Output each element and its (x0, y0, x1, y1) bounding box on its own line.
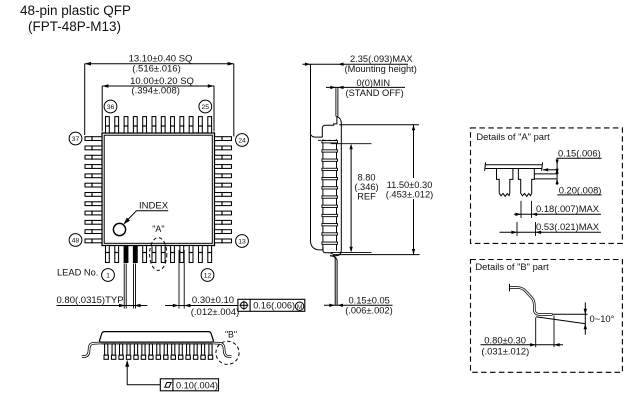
dimension 13.10±0.40 SQ (85, 63, 234, 65)
svg-text:M: M (297, 304, 303, 311)
svg-text:2.35(.093)MAX: 2.35(.093)MAX (350, 54, 413, 64)
svg-text:37: 37 (72, 136, 80, 143)
side view lead 7 edge (322, 196, 338, 198)
svg-text:0.80(.0315)TYP: 0.80(.0315)TYP (57, 295, 124, 306)
pin number callout 37 (69, 132, 82, 145)
svg-text:0.18(.007)MAX: 0.18(.007)MAX (536, 203, 600, 214)
svg-text:24: 24 (238, 137, 246, 144)
bottom view: package body profile (100, 332, 214, 343)
side view lead 12 edge (322, 242, 338, 244)
pin number callout 25 (199, 100, 212, 113)
svg-text:0.15(.006): 0.15(.006) (558, 147, 601, 158)
bottom view: right corner gull-wing lead "B" (213, 343, 232, 356)
Details of "A" part box (471, 128, 623, 243)
svg-text:0.20(.008): 0.20(.008) (559, 184, 602, 195)
left pin row (pins 37..48) (85, 137, 102, 141)
side view lead 10 edge (322, 224, 338, 226)
pin number callout 24 (236, 134, 249, 147)
svg-text:Details of "B" part: Details of "B" part (475, 261, 549, 272)
B: dimension 0.80±0.30 (535, 318, 537, 348)
A: dimension 0.20(.008) (534, 173, 557, 175)
right pin row (pins 24..13) (215, 137, 232, 141)
svg-text:LEAD No.: LEAD No. (57, 268, 98, 278)
position symbol (241, 302, 248, 309)
svg-text:36: 36 (107, 104, 115, 111)
top pin row (pins 36..25) (106, 117, 110, 133)
dimension 0.30±0.10 (165, 305, 238, 307)
dimension 2.35(.093)MAX mounting height (303, 63, 409, 65)
dimension 0.80(.0315)TYP (57, 305, 148, 307)
pin number callout 36 (104, 100, 117, 113)
side view lead 9 edge (322, 214, 338, 216)
side view lead 8 edge (322, 205, 338, 207)
A: dimension 0.53(.021)MAX (516, 222, 518, 236)
B: horizontal reference line (552, 313, 588, 315)
svg-text:(.346): (.346) (354, 182, 378, 192)
Details of "B" part box (471, 260, 623, 373)
bottom pin row (pins 1..12) (106, 246, 110, 263)
pin number callout 1 (102, 269, 115, 282)
feature control frame 0.16 true position (238, 299, 305, 311)
side view: hidden lead dashed line (318, 139, 336, 141)
svg-text:(.006±.002): (.006±.002) (345, 305, 392, 315)
svg-text:11.50±0.30: 11.50±0.30 (387, 180, 433, 190)
side view lead 2 edge (322, 150, 338, 152)
"A" dashed ellipse (150, 238, 167, 271)
svg-text:13: 13 (238, 238, 246, 245)
side view: body outline right edge (330, 117, 341, 256)
dimension 0.80 TYP lead pitch extension lines (123, 264, 125, 309)
svg-text:Details of "A" part: Details of "A" part (476, 131, 550, 142)
"B" dashed circle (216, 341, 239, 364)
side view lead 3 edge (322, 159, 338, 161)
svg-text:0(0)MIN: 0(0)MIN (357, 78, 391, 88)
svg-text:48-pin plastic QFP: 48-pin plastic QFP (20, 3, 131, 18)
index mark circle (113, 223, 125, 235)
M modifier symbol (295, 302, 303, 310)
side view: bottom corner lead profile (323, 247, 335, 305)
svg-text:12: 12 (204, 272, 212, 279)
svg-text:25: 25 (202, 104, 210, 111)
dimension 10.00±0.20 SQ (102, 85, 214, 87)
svg-text:REF: REF (357, 192, 376, 202)
dimension 11.50±0.30 overall height (339, 124, 419, 126)
svg-text:0.10(.004): 0.10(.004) (176, 381, 218, 391)
svg-text:(STAND OFF): (STAND OFF) (346, 88, 404, 98)
svg-text:48: 48 (72, 237, 80, 244)
svg-text:(.031±.012): (.031±.012) (481, 345, 529, 356)
dimension 8.80 REF (331, 143, 372, 145)
A: package edge lines (485, 164, 542, 166)
feature control frame 0.10 flatness (160, 379, 218, 391)
svg-text:0.30±0.10: 0.30±0.10 (192, 295, 234, 306)
A: dimension 0.18(.007)MAX (520, 201, 522, 218)
A: lead 1 (497, 169, 513, 197)
side view lead 4 edge (322, 168, 338, 170)
top view: package body inner line (104, 135, 212, 243)
svg-text:0.16(.006): 0.16(.006) (253, 301, 295, 311)
pin number callout 13 (236, 235, 249, 248)
B: angle arrows 0~10 (584, 302, 586, 334)
side view lead 1 edge (322, 141, 338, 143)
svg-text:0.80±0.30: 0.80±0.30 (484, 334, 526, 345)
svg-text:1: 1 (106, 272, 110, 279)
svg-text:0.53(.021)MAX: 0.53(.021)MAX (536, 221, 600, 232)
dimension 0.15±0.05 lead thickness (324, 304, 393, 306)
svg-text:(.453±.012): (.453±.012) (386, 190, 433, 200)
pin number callout 12 (201, 269, 214, 282)
bottom view: lead bars (105, 344, 108, 355)
side view lead 11 edge (322, 233, 338, 235)
flatness symbol (165, 383, 171, 388)
dimension 0(0)MIN stand off (326, 86, 405, 88)
pin number callout 48 (69, 234, 82, 247)
B: foot angle line (536, 317, 586, 324)
svg-text:0~10°: 0~10° (590, 313, 615, 324)
side view: top corner lead profile (311, 134, 323, 137)
bottom view: body lower edge line (101, 343, 213, 345)
side view: lead tip plane line (311, 64, 323, 250)
dimension 0.30 lead width extension lines (178, 250, 180, 309)
svg-text:(.012±.004): (.012±.004) (191, 307, 240, 318)
INDEX leader arrow (127, 211, 137, 221)
svg-text:0.15±0.05: 0.15±0.05 (349, 295, 390, 305)
B: lead bend profile (510, 288, 553, 315)
bottom view: left corner gull-wing lead (82, 343, 101, 356)
svg-text:"B": "B" (225, 330, 237, 340)
leader to seating plane (126, 362, 128, 385)
svg-text:(.516±.016): (.516±.016) (132, 64, 181, 75)
svg-text:(.394±.008): (.394±.008) (131, 85, 180, 96)
side view lead 5 edge (322, 177, 338, 179)
A: lead 2 (518, 169, 534, 197)
svg-text:(Mounting height): (Mounting height) (345, 64, 417, 74)
side view: body edge with leads (ladder) (322, 139, 324, 250)
svg-text:INDEX: INDEX (139, 201, 169, 212)
side view lead 6 edge (322, 187, 338, 189)
svg-text:(FPT-48P-M13): (FPT-48P-M13) (28, 19, 121, 34)
svg-text:8.80: 8.80 (357, 173, 375, 183)
svg-text:"A": "A" (152, 224, 164, 234)
top view: package body outline (102, 133, 215, 246)
